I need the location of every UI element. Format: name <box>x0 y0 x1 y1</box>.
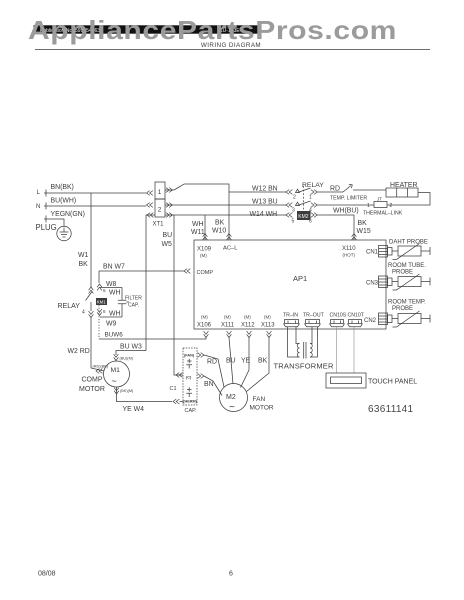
svg-text:COMP: COMP <box>197 270 214 276</box>
svg-text:(RD)(BK): (RD)(BK) <box>93 365 109 369</box>
svg-text:3: 3 <box>292 208 295 214</box>
arrows out C <box>198 374 204 379</box>
CN1 connector <box>379 246 388 258</box>
footer group <box>38 571 233 578</box>
contact row2 blade <box>298 201 311 206</box>
wire RD <box>204 355 224 387</box>
svg-text:WH: WH <box>109 290 121 297</box>
wire CN10T to panel <box>353 327 355 373</box>
svg-text:RD: RD <box>207 359 217 366</box>
contact row2 arrows right <box>311 203 317 208</box>
svg-text:X109: X109 <box>197 247 212 253</box>
svg-text:TR–IN: TR–IN <box>283 313 298 319</box>
svg-text:BN W7: BN W7 <box>103 264 125 271</box>
filter cap tie <box>126 301 129 303</box>
connector arrows left row2 <box>147 203 153 208</box>
svg-text:W11: W11 <box>191 229 205 236</box>
thermistor DAHT <box>392 247 430 255</box>
svg-text:~: ~ <box>112 376 117 386</box>
svg-text:4: 4 <box>82 310 85 316</box>
wire BU W3 <box>116 351 146 356</box>
svg-text:MOTOR: MOTOR <box>250 405 274 412</box>
svg-text:YEGN(GN): YEGN(GN) <box>51 211 85 218</box>
probes on right edge <box>364 240 430 328</box>
TR-OUT connector <box>306 320 320 324</box>
contact row2 pivot <box>296 202 300 205</box>
svg-text:W9: W9 <box>106 321 117 328</box>
svg-text:X112: X112 <box>241 323 255 329</box>
contact arrows up on W1 <box>89 287 94 293</box>
svg-text:X111: X111 <box>221 323 235 329</box>
wire BN W7 <box>99 270 184 272</box>
contact row3 arrows left <box>286 213 292 218</box>
svg-text:YE: YE <box>241 358 251 365</box>
svg-text:1: 1 <box>158 189 162 196</box>
arrow into motor top <box>114 354 119 360</box>
relay coil KM2 <box>297 211 311 220</box>
svg-text:2: 2 <box>390 203 393 209</box>
wire BU <box>229 338 233 385</box>
filter cap leads <box>121 288 123 318</box>
svg-text:WIRING DIAGRAM: WIRING DIAGRAM <box>201 42 261 49</box>
svg-text:~: ~ <box>229 402 235 413</box>
svg-text:W8: W8 <box>106 281 117 288</box>
svg-text:TEMP. LIMITER: TEMP. LIMITER <box>330 196 367 202</box>
X112 arrow <box>247 331 252 337</box>
temp limiter switch <box>343 184 352 192</box>
plug prong ground <box>44 216 48 223</box>
AP1 bottom connectors <box>197 313 365 338</box>
svg-text:5: 5 <box>103 288 106 293</box>
wire heater return loop <box>389 193 430 206</box>
svg-text:WH: WH <box>109 311 121 318</box>
svg-text:2: 2 <box>293 195 296 201</box>
core lines <box>304 342 306 359</box>
XT1 box 2 <box>155 199 165 217</box>
svg-text:W2 RD: W2 RD <box>68 348 90 355</box>
svg-text:PROBE: PROBE <box>392 270 413 276</box>
svg-text:BK: BK <box>258 358 268 365</box>
svg-text:TR–OUT: TR–OUT <box>303 313 325 319</box>
motor left arrow <box>96 369 102 374</box>
heater circuit <box>330 182 430 217</box>
wire BK <box>247 338 270 392</box>
arrow below motor <box>114 388 119 394</box>
contact row1 blade <box>298 188 311 193</box>
svg-text:2: 2 <box>158 207 162 214</box>
CN2 connector <box>379 313 388 325</box>
svg-text:FAN: FAN <box>253 396 266 403</box>
wire W9 <box>100 316 122 318</box>
svg-text:(C): (C) <box>186 376 192 380</box>
wire N to XT1-2 <box>48 205 146 207</box>
svg-text:BK: BK <box>79 261 89 268</box>
XT1 box 1 <box>155 182 165 199</box>
contact row1 arrows left <box>286 190 292 195</box>
svg-text:6: 6 <box>103 309 106 314</box>
secondary coil <box>310 344 312 358</box>
svg-text:XT1: XT1 <box>153 222 165 228</box>
terminal block XT1 <box>78 182 286 375</box>
left relay KM1 <box>58 271 143 371</box>
relay linkage dashed <box>303 186 305 211</box>
svg-text:KM2: KM2 <box>298 214 309 220</box>
svg-text:DAHT PROBE: DAHT PROBE <box>389 240 428 246</box>
capacitor dashed box <box>183 348 197 405</box>
header group <box>28 16 430 50</box>
contact row1 pivot <box>296 189 300 192</box>
svg-text:M2: M2 <box>226 394 236 401</box>
svg-text:BU: BU <box>163 232 173 239</box>
svg-text:YE W4: YE W4 <box>123 406 145 413</box>
svg-text:CN3: CN3 <box>366 281 379 287</box>
contact blade <box>86 292 93 301</box>
plug area <box>36 184 147 241</box>
svg-text:W10: W10 <box>212 228 226 235</box>
coil wire to X106 dashed <box>98 305 100 339</box>
svg-text:W15: W15 <box>357 228 371 235</box>
svg-text:THERMAL–LINK: THERMAL–LINK <box>363 211 403 217</box>
ground symbol bars <box>60 228 69 238</box>
svg-text:RD: RD <box>330 186 340 193</box>
svg-text:ROOM TUBE.: ROOM TUBE. <box>388 263 426 269</box>
ground symbol circle <box>57 226 71 240</box>
svg-text:BUW6: BUW6 <box>105 332 124 339</box>
svg-text:W12 BN: W12 BN <box>252 186 278 193</box>
wire box2 right row2 <box>165 204 286 206</box>
touch panel <box>326 327 417 388</box>
contact row1 arrows right <box>311 190 317 195</box>
AP1 board outline <box>194 240 386 329</box>
svg-text:RELAY: RELAY <box>302 182 324 189</box>
connector arrows left row1 <box>147 191 153 196</box>
wire W8 <box>100 287 122 289</box>
svg-text:PLUG: PLUG <box>36 223 57 232</box>
filter cap plates <box>118 300 127 304</box>
svg-text:(HOT): (HOT) <box>343 253 356 258</box>
plug prong N <box>44 203 48 210</box>
wire limiter to heater <box>353 189 386 191</box>
run capacitor C1 <box>170 348 204 414</box>
svg-text:1: 1 <box>309 195 312 201</box>
svg-text:(M): (M) <box>224 315 231 320</box>
svg-text:TRANSFORMER: TRANSFORMER <box>274 362 334 371</box>
svg-text:AC–L: AC–L <box>223 246 238 252</box>
svg-text:BU(WH): BU(WH) <box>51 198 77 205</box>
wire X106 to coil <box>99 338 206 340</box>
wire resume below blade <box>90 302 92 311</box>
wire into herm <box>180 401 184 403</box>
svg-text:AP1: AP1 <box>293 274 307 283</box>
wire WH(BU) out <box>317 204 373 206</box>
svg-text:BN(BK): BN(BK) <box>51 184 74 191</box>
svg-text:BK: BK <box>358 220 368 227</box>
wire box2 right row3 <box>165 214 286 216</box>
heater element box <box>386 188 418 197</box>
primary coil <box>297 344 299 358</box>
CN10T connector <box>349 320 362 324</box>
connector arrows right row3 <box>166 213 172 218</box>
plug prong L <box>44 190 48 197</box>
wire box1 right stub <box>165 189 174 191</box>
BN W7 drop to contact <box>98 271 100 283</box>
connector arrows right row2 <box>166 203 172 208</box>
thermistor ROOM TUBE <box>392 278 430 286</box>
wire YE W4 <box>117 387 173 402</box>
svg-text:JT: JT <box>377 197 382 202</box>
thermal link body <box>374 202 387 208</box>
svg-text:X113: X113 <box>261 323 275 329</box>
publication black bar <box>34 25 261 33</box>
arrows out FAN <box>198 353 204 358</box>
svg-text:M1: M1 <box>111 367 121 374</box>
svg-text:CAP.: CAP. <box>185 408 198 414</box>
wire BU W5 down to capacitor <box>174 215 183 375</box>
svg-text:(HERM): (HERM) <box>183 400 197 404</box>
svg-text:(M): (M) <box>200 253 207 258</box>
arrows into C left <box>176 373 182 378</box>
svg-text:(M): (M) <box>201 315 208 320</box>
svg-text:MOTOR: MOTOR <box>79 386 105 393</box>
touch panel outer box <box>326 373 366 388</box>
COMP connector arrows <box>184 269 190 274</box>
svg-text:6: 6 <box>229 571 233 578</box>
arrows into HERM <box>173 399 179 404</box>
svg-text:W14 WH: W14 WH <box>250 211 278 218</box>
svg-text:BK: BK <box>215 220 225 227</box>
svg-text:L: L <box>37 190 41 196</box>
svg-text:BU: BU <box>226 358 236 365</box>
contact arrows up pole B <box>97 284 102 290</box>
svg-text:CAP.: CAP. <box>128 303 139 309</box>
contact arrows down pole B <box>97 309 102 315</box>
svg-text:X110: X110 <box>342 246 356 252</box>
control board AP1 <box>99 240 386 329</box>
connector arrows right row1 <box>166 188 172 193</box>
svg-text:W13 BU: W13 BU <box>252 199 278 206</box>
connector arrow into AC-L <box>227 234 232 240</box>
switch blade XT1-1 <box>174 184 185 190</box>
svg-text:N: N <box>36 204 40 210</box>
relay coil KM1 <box>96 298 107 305</box>
wire CN10S to panel <box>336 327 338 373</box>
svg-text:(FAN): (FAN) <box>184 354 195 358</box>
svg-text:KM1: KM1 <box>97 300 106 305</box>
svg-text:COMP: COMP <box>82 377 103 384</box>
svg-text:(BK)(M): (BK)(M) <box>120 389 134 393</box>
wire YE <box>241 338 250 388</box>
primary wires <box>288 327 300 357</box>
TR-IN connector <box>285 320 299 324</box>
svg-text:5: 5 <box>292 219 295 225</box>
CN3 connector <box>379 276 388 288</box>
svg-text:RELAY: RELAY <box>58 303 81 310</box>
svg-text:(M): (M) <box>244 315 251 320</box>
svg-text:WH(BU): WH(BU) <box>333 208 359 215</box>
svg-text:CN10T: CN10T <box>348 313 365 319</box>
svg-text:X106: X106 <box>197 323 212 329</box>
CN10S connector <box>331 320 344 324</box>
svg-text:6: 6 <box>309 219 312 225</box>
svg-text:CN1: CN1 <box>366 250 379 256</box>
motor M1 <box>104 361 130 387</box>
svg-text:BU W3: BU W3 <box>120 344 142 351</box>
svg-text:AppliancePartsPros.com: AppliancePartsPros.com <box>28 16 397 44</box>
connector arrow into X110 <box>352 234 357 240</box>
svg-text:PROBE: PROBE <box>392 306 413 312</box>
thermistor ROOM TEMP <box>392 315 430 323</box>
svg-text:08/08: 08/08 <box>38 571 56 578</box>
svg-text:63611141: 63611141 <box>368 404 414 415</box>
wire top feed to junction <box>184 184 229 240</box>
svg-text:1: 1 <box>367 203 370 209</box>
comp motor area <box>68 332 207 414</box>
svg-text:BN: BN <box>204 381 214 388</box>
transformer <box>274 327 334 371</box>
X113 arrow <box>267 331 272 337</box>
cap section 2 <box>186 387 192 397</box>
X106 arrow <box>204 331 209 337</box>
svg-text:CN10S: CN10S <box>330 313 347 319</box>
wire RD out <box>317 191 343 193</box>
svg-text:(M): (M) <box>264 315 271 320</box>
connector arrows left row3 <box>147 213 153 218</box>
wire down to comp motor <box>91 318 104 372</box>
wire BN <box>204 376 222 396</box>
W1 BK vertical wire <box>90 193 92 287</box>
svg-text:CN2: CN2 <box>364 318 377 324</box>
svg-text:ROOM TEMP.: ROOM TEMP. <box>388 300 426 306</box>
svg-text:TOUCH PANEL: TOUCH PANEL <box>368 379 417 386</box>
touch panel inner box <box>331 377 362 384</box>
svg-text:W5: W5 <box>162 241 173 248</box>
wire ground lead <box>48 219 64 226</box>
header rule <box>35 49 430 51</box>
svg-text:(BU)(M): (BU)(M) <box>120 357 134 361</box>
X111 arrow <box>227 331 232 337</box>
fan motor area <box>204 338 274 414</box>
wire box2 left branch <box>146 215 155 351</box>
connector arrow into X109 <box>203 234 208 240</box>
right relay KM2 rows <box>250 182 374 240</box>
wire W12 BN branch <box>229 191 286 193</box>
secondary wires <box>310 327 318 357</box>
contact row2 arrows left <box>286 203 292 208</box>
wire WH W11 tap down <box>204 215 206 240</box>
svg-text:WH: WH <box>192 221 204 228</box>
contact row3 arrows right <box>311 213 317 218</box>
cap section 1 <box>186 359 192 369</box>
wire L to XT1-1 <box>48 192 146 194</box>
svg-text:C1: C1 <box>170 386 177 392</box>
wire BK W15 <box>317 215 354 240</box>
svg-text:W1: W1 <box>78 252 89 259</box>
motor M2 <box>220 384 248 412</box>
svg-text:FILTER: FILTER <box>125 296 142 302</box>
contact arrows down on W2 <box>89 311 94 317</box>
